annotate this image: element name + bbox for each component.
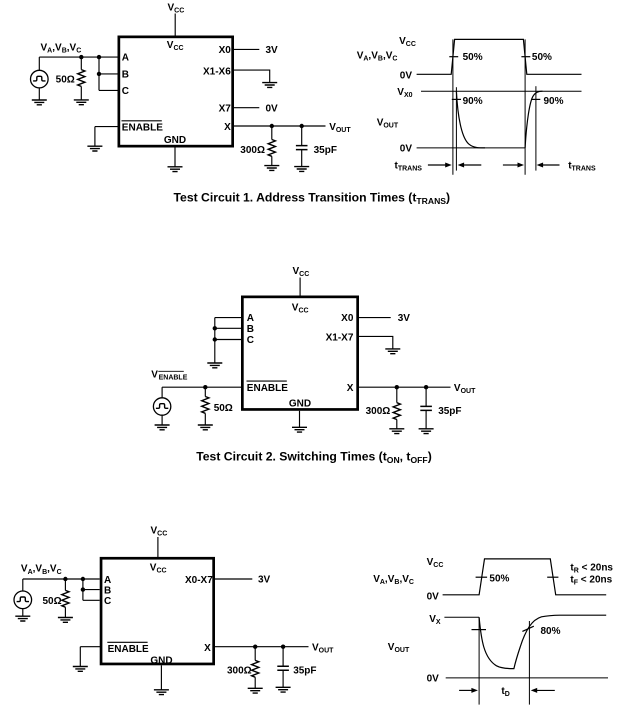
svg-text:tD​: tD​: [501, 686, 509, 698]
svg-text:50%: 50%: [489, 574, 509, 585]
svg-text:300Ω: 300Ω: [240, 145, 265, 156]
svg-text:B: B: [122, 70, 129, 81]
svg-text:0V: 0V: [427, 674, 440, 685]
svg-text:ENABLE: ENABLE: [108, 644, 149, 655]
svg-text:X: X: [347, 383, 354, 394]
svg-text:A: A: [247, 313, 254, 324]
svg-text:GND: GND: [164, 135, 186, 146]
svg-text:VCC​: VCC​: [150, 562, 167, 574]
svg-text:3V: 3V: [266, 45, 279, 56]
svg-text:Test Circuit 1. Address Transi: Test Circuit 1. Address Transition Times…: [174, 191, 451, 206]
svg-text:X0: X0: [341, 313, 354, 324]
svg-text:ENABLE: ENABLE: [122, 123, 163, 134]
svg-text:A: A: [104, 575, 111, 586]
svg-text:X: X: [224, 122, 231, 133]
svg-text:50Ω: 50Ω: [56, 75, 75, 86]
svg-text:90%: 90%: [463, 96, 483, 107]
svg-text:50%: 50%: [463, 52, 483, 63]
svg-text:Test Circuit 2. Switching Time: Test Circuit 2. Switching Times (tON, tO…: [196, 450, 432, 465]
svg-text:ENABLE: ENABLE: [159, 375, 188, 382]
svg-text:C: C: [122, 86, 129, 97]
svg-text:VCC​: VCC​: [292, 303, 309, 315]
svg-text:VCC​: VCC​: [167, 40, 184, 52]
svg-text:300Ω: 300Ω: [227, 666, 252, 677]
svg-text:VA​,VB​,VC​: VA​,VB​,VC​: [373, 574, 414, 586]
svg-text:VCC​: VCC​: [293, 266, 310, 278]
svg-text:0V: 0V: [427, 591, 440, 602]
svg-text:VOUT​: VOUT​: [329, 122, 351, 134]
svg-text:X0-X7: X0-X7: [185, 575, 213, 586]
svg-text:0V: 0V: [400, 71, 413, 82]
svg-text:VOUT​: VOUT​: [454, 383, 476, 395]
svg-text:GND: GND: [289, 399, 311, 410]
svg-text:X: X: [204, 643, 211, 654]
svg-text:300Ω: 300Ω: [366, 406, 391, 417]
svg-text:35pF: 35pF: [314, 145, 337, 156]
svg-text:VCC​: VCC​: [399, 36, 416, 48]
svg-text:35pF: 35pF: [438, 406, 461, 417]
svg-text:0V: 0V: [400, 143, 413, 154]
svg-text:50%: 50%: [532, 52, 552, 63]
svg-text:50Ω: 50Ω: [214, 403, 233, 414]
svg-text:VA​,VB​,VC​: VA​,VB​,VC​: [21, 564, 62, 576]
svg-text:X0: X0: [219, 45, 232, 56]
svg-text:50Ω: 50Ω: [42, 596, 61, 607]
svg-text:B: B: [247, 324, 254, 335]
svg-text:80%: 80%: [541, 626, 561, 637]
svg-text:3V: 3V: [398, 313, 411, 324]
svg-text:tTRANS​: tTRANS​: [568, 160, 596, 172]
svg-text:VCC​: VCC​: [168, 3, 185, 15]
svg-text:C: C: [247, 335, 254, 346]
svg-text:V: V: [151, 370, 158, 381]
svg-text:0V: 0V: [266, 104, 279, 115]
svg-text:VOUT​: VOUT​: [388, 642, 410, 654]
svg-text:VA​,VB​,VC​: VA​,VB​,VC​: [41, 42, 82, 54]
svg-text:VOUT​: VOUT​: [377, 118, 399, 130]
svg-text:VX0​: VX0​: [397, 87, 412, 99]
svg-text:35pF: 35pF: [293, 666, 316, 677]
svg-text:X1-X7: X1-X7: [326, 332, 354, 343]
svg-text:tR​ < 20ns: tR​ < 20ns: [570, 562, 613, 574]
svg-text:VA​,VB​,VC​: VA​,VB​,VC​: [357, 50, 398, 62]
svg-text:tTRANS​: tTRANS​: [395, 160, 423, 172]
svg-text:C: C: [104, 596, 111, 607]
svg-text:X7: X7: [219, 104, 232, 115]
svg-text:B: B: [104, 585, 111, 596]
svg-text:A: A: [122, 53, 129, 64]
svg-text:VCC​: VCC​: [151, 526, 168, 538]
svg-text:tF​ < 20ns: tF​ < 20ns: [570, 574, 612, 586]
svg-text:VOUT​: VOUT​: [312, 643, 334, 655]
svg-text:90%: 90%: [544, 96, 564, 107]
svg-text:3V: 3V: [258, 575, 271, 586]
svg-text:GND: GND: [150, 655, 172, 666]
svg-text:ENABLE: ENABLE: [247, 383, 288, 394]
svg-text:X1-X6: X1-X6: [203, 66, 231, 77]
svg-text:VCC​: VCC​: [427, 557, 444, 569]
svg-text:VX​: VX​: [429, 614, 441, 626]
